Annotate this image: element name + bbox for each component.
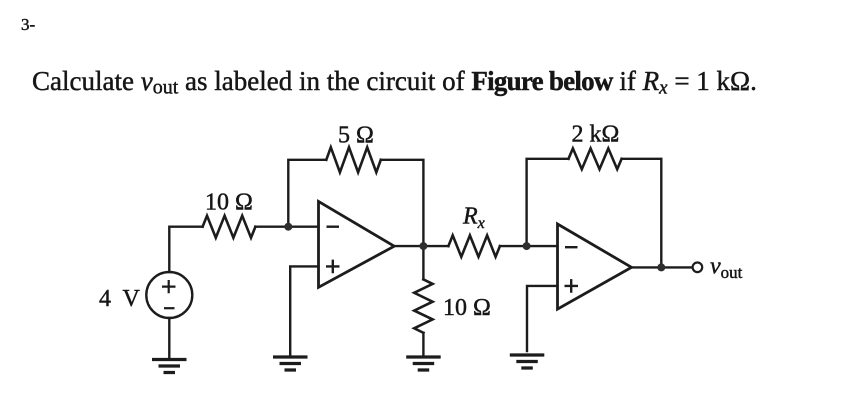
- wire Rx to op-amp U2 inverting input: [500, 245, 558, 247]
- svg-text:4: 4: [99, 286, 111, 312]
- svg-text:2 kΩ: 2 kΩ: [572, 122, 620, 148]
- op-amp U2 plus sign: [565, 279, 579, 293]
- op-amp U1 plus sign: [326, 260, 340, 274]
- resistor Rx: [448, 235, 500, 256]
- op-amp U2: [558, 224, 632, 309]
- wire op-amp U2 noninverting input to ground: [527, 286, 558, 351]
- wire node B down to 10 ohm vertical resistor: [422, 246, 424, 279]
- wire 10ohm vertical to ground: [422, 333, 424, 356]
- source V1 plus sign: [162, 280, 176, 293]
- ground under 10ohm vertical resistor: [406, 357, 441, 370]
- source V1 minus sign: [164, 307, 175, 309]
- terminal vout open circle: [693, 263, 703, 273]
- op-amp U2 minus sign: [565, 246, 578, 248]
- svg-text:10 Ω: 10 Ω: [205, 190, 253, 216]
- resistor 5ohm feedback: [326, 147, 381, 172]
- svg-text:vout: vout: [710, 254, 743, 283]
- wire source bottom to ground: [168, 318, 170, 359]
- svg-text:5 Ω: 5 Ω: [338, 123, 374, 149]
- svg-text:V: V: [123, 286, 141, 312]
- node A junction dot: [284, 223, 292, 231]
- svg-text:Calculate vout as labeled in t: Calculate vout as labeled in the circuit…: [32, 66, 757, 99]
- wire op-amp U1 noninverting input to ground: [290, 266, 318, 356]
- resistor R 10ohm horizontal: [203, 216, 256, 238]
- svg-text:3-: 3-: [21, 15, 36, 34]
- wire from 5 ohm down to op-amp U1 output node: [381, 160, 424, 246]
- wire from node A up to 5 ohm feedback resistor: [288, 160, 326, 227]
- svg-text:10 Ω: 10 Ω: [443, 295, 491, 321]
- ground under op-amp U2 plus input: [510, 355, 545, 368]
- wire 2k resistor down to output node D: [622, 159, 662, 268]
- wire node C up to 2k feedback resistor: [527, 159, 569, 246]
- source V1 4V circle: [146, 272, 192, 318]
- op-amp U1 minus sign: [327, 225, 340, 227]
- wire from source top to 10 ohm resistor: [169, 227, 202, 272]
- resistor 2k feedback: [569, 148, 622, 169]
- node B junction dot: [419, 242, 427, 250]
- ground under source: [152, 360, 187, 373]
- node C junction dot: [523, 242, 531, 250]
- wire from 10 ohm to op-amp U1 inverting input: [255, 225, 318, 227]
- ground under op-amp U1 plus input: [273, 357, 308, 370]
- wire op-amp U2 output to vout terminal: [632, 266, 693, 268]
- svg-text:Rx: Rx: [462, 204, 485, 233]
- wire op-amp U1 output to Rx: [394, 245, 448, 247]
- resistor 10ohm vertical: [414, 279, 432, 332]
- node D junction dot: [657, 263, 665, 271]
- op-amp U1: [319, 201, 395, 287]
